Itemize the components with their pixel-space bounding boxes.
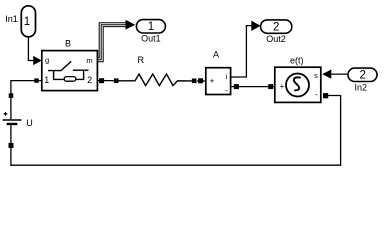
svg-text:R: R	[138, 55, 145, 65]
node: A minus port square	[234, 84, 239, 89]
top lead	[10, 98, 12, 119]
B body	[42, 51, 98, 91]
Out2 oval	[261, 20, 292, 33]
node: e(t) plus port square	[268, 84, 273, 89]
svg-text:2: 2	[87, 75, 92, 85]
svg-text:+: +	[280, 82, 285, 91]
wire In2 to s	[331, 73, 348, 75]
svg-text:s: s	[314, 71, 318, 80]
svg-text:-: -	[225, 86, 228, 95]
input port In2	[348, 68, 377, 92]
block B (breaker)	[42, 39, 98, 91]
output port Out2	[261, 20, 292, 44]
svg-text:1: 1	[24, 16, 30, 28]
svg-text:Out1: Out1	[141, 34, 161, 44]
svg-text:B: B	[65, 39, 71, 49]
wire R to A	[197, 80, 206, 82]
breaker right contact	[73, 69, 89, 71]
sine squiggle	[294, 77, 301, 90]
wire line 2	[98, 25, 127, 60]
node: battery bottom port square	[9, 143, 14, 148]
wire e(t).minus down to bottom rail	[11, 96, 341, 166]
battery U (DC source)	[3, 98, 33, 144]
wire B.2 to R	[98, 80, 115, 82]
battery short plate	[7, 123, 18, 125]
R zigzag	[118, 74, 194, 86]
svg-text:A: A	[213, 50, 219, 60]
node: A plus port square	[198, 78, 203, 83]
svg-text:1: 1	[148, 21, 154, 33]
block A (current measurement)	[206, 50, 231, 95]
svg-text:2: 2	[273, 21, 279, 33]
wire A.minus to e(t).plus	[231, 86, 268, 88]
arrowhead into s port	[322, 70, 331, 79]
wire line 3	[98, 27, 127, 62]
svg-text:+: +	[210, 76, 215, 85]
wire battery bottom to bottom rail	[10, 148, 12, 166]
svg-text:1: 1	[44, 75, 49, 85]
In1 oval	[21, 6, 35, 37]
node: B port 1 square	[34, 78, 38, 82]
arrowhead into Out1	[126, 20, 136, 30]
arrowhead into Out2	[251, 21, 260, 31]
breaker shunt path	[54, 70, 84, 79]
e(t) body	[275, 67, 321, 102]
svg-text:U: U	[26, 118, 33, 128]
wire A.i to Out2	[231, 26, 253, 77]
arrowhead into g	[33, 56, 42, 65]
wire line 1	[98, 23, 127, 58]
svg-text:Out2: Out2	[266, 34, 286, 44]
resistor R	[118, 55, 194, 85]
source circle	[286, 74, 309, 97]
input port In1	[5, 6, 35, 37]
node: B port 2 square	[99, 78, 104, 83]
svg-text:g: g	[45, 55, 49, 64]
breaker element box	[64, 77, 76, 82]
breaker switch blade	[48, 61, 71, 70]
svg-text:In1: In1	[5, 14, 18, 24]
wire B.1 to battery top	[11, 81, 42, 94]
svg-text:m: m	[86, 56, 92, 65]
bottom lead	[10, 125, 12, 143]
svg-text:-: -	[315, 90, 318, 99]
svg-text:In2: In2	[355, 82, 368, 92]
bus wire m to Out1 (triple line)	[98, 23, 127, 62]
node: battery top port square	[9, 93, 14, 98]
svg-text:e(t): e(t)	[290, 56, 304, 66]
node: e(t) minus port square	[323, 93, 328, 98]
In2 oval	[348, 68, 377, 81]
output port Out1	[136, 20, 165, 44]
plus mark	[4, 112, 8, 116]
node: R left port square	[114, 78, 119, 83]
A body	[206, 68, 231, 95]
block e(t) (controlled voltage source)	[275, 56, 321, 103]
node: R right port square	[192, 79, 197, 84]
battery long plate	[3, 119, 22, 121]
Out1 oval	[136, 20, 165, 33]
wire In1 to B.g	[28, 37, 34, 61]
svg-text:2: 2	[359, 70, 365, 82]
wire into e(t) left edge	[273, 86, 275, 88]
